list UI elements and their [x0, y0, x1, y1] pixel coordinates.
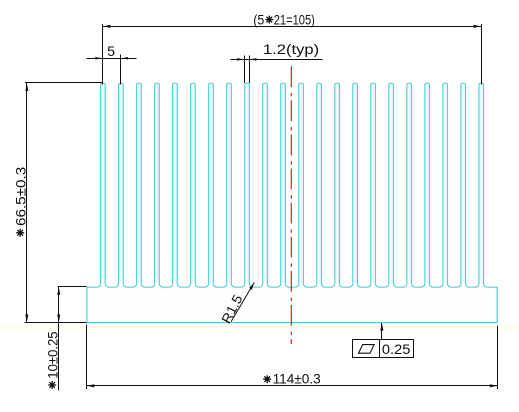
dimension line 1.2 typ fin thickness: [230, 56, 322, 84]
text (5*21=105): [253, 12, 315, 27]
dimension line 114 overall width: [86, 325, 498, 390]
heatsink extrusion profile outline: [87, 83, 497, 322]
svg-text:66.5±0.3: 66.5±0.3: [13, 167, 28, 226]
svg-text:21=105): 21=105): [274, 12, 315, 27]
text *114±0.3: [263, 371, 321, 386]
text R1.5 (rotated): [219, 292, 246, 326]
centerline (red dash-dot): [290, 66, 292, 344]
dimension line 10 base thickness: [57, 287, 86, 391]
text *10±0.25 (rotated): [45, 331, 60, 389]
dimension line 5 fin pitch: [87, 55, 137, 85]
svg-text:10±0.25: 10±0.25: [45, 331, 60, 378]
text *66.5±0.3 (rotated): [13, 167, 28, 237]
svg-text:5: 5: [107, 43, 115, 59]
svg-text:1.2(typ): 1.2(typ): [263, 42, 319, 57]
fin interior tint: [103, 86, 481, 282]
svg-text:0.25: 0.25: [382, 342, 411, 357]
dimension line 66.5 overall height: [25, 83, 104, 323]
faint band below base (scan artifact): [0, 324, 519, 331]
svg-text:(5: (5: [253, 12, 264, 27]
svg-text:114±0.3: 114±0.3: [273, 371, 321, 386]
leader line R1.5 root fillet radius: [231, 282, 254, 321]
dimension line (5*21=105) fin spacing overall: [102, 24, 481, 85]
flatness tolerance frame with leader: [353, 323, 414, 357]
